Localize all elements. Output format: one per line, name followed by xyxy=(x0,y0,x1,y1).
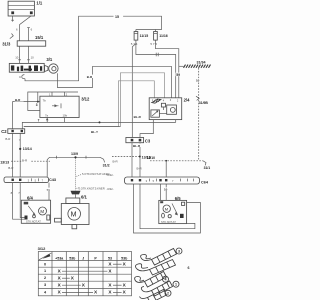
svg-text:3: 3 xyxy=(178,249,180,253)
svg-text:3/12: 3/12 xyxy=(38,246,47,251)
svg-text:BL-R: BL-R xyxy=(133,144,141,148)
svg-text:STK.NOT.AT: STK.NOT.AT xyxy=(26,220,41,224)
svg-text:0: 0 xyxy=(44,262,46,266)
svg-text:1: 1 xyxy=(44,269,46,273)
svg-text:C43: C43 xyxy=(49,178,56,182)
svg-text:BL-Y: BL-Y xyxy=(91,130,98,134)
svg-text:59: 59 xyxy=(176,73,180,77)
svg-text:7b: 7b xyxy=(43,99,47,103)
svg-text:10b: 10b xyxy=(63,114,68,118)
svg-text:STK.NOT.AT: STK.NOT.AT xyxy=(161,220,176,224)
svg-text:10: 10 xyxy=(196,79,200,83)
svg-text:13/9: 13/9 xyxy=(71,152,78,156)
svg-text:53b: 53b xyxy=(69,256,76,260)
svg-text:B-R: B-R xyxy=(137,167,143,171)
svg-text:1/1: 1/1 xyxy=(36,0,42,5)
svg-text:3/1: 3/1 xyxy=(46,57,52,62)
svg-text:7: 7 xyxy=(38,119,40,123)
svg-text:6/1: 6/1 xyxy=(81,195,87,200)
svg-text:C2: C2 xyxy=(1,129,7,134)
svg-text:6/5: 6/5 xyxy=(175,196,181,201)
svg-text:Y: Y xyxy=(19,138,21,142)
svg-text:3: 3 xyxy=(44,283,46,287)
svg-text:B-R: B-R xyxy=(5,137,10,141)
svg-text:31/34: 31/34 xyxy=(197,61,206,65)
svg-text:13/13: 13/13 xyxy=(0,160,9,164)
svg-text:31/9B: 31/9B xyxy=(199,101,209,105)
svg-text:4: 4 xyxy=(165,278,167,282)
svg-text:B-R: B-R xyxy=(22,159,28,163)
svg-text:B-R: B-R xyxy=(8,166,14,170)
svg-text:5 7 5: 5 7 5 xyxy=(150,42,157,46)
svg-text:M: M xyxy=(71,211,77,218)
svg-text:3: 3 xyxy=(36,103,38,107)
svg-text:+53a: +53a xyxy=(55,256,64,260)
svg-text:6: 6 xyxy=(188,266,190,270)
svg-text:10: 10 xyxy=(31,56,35,60)
svg-text:C64: C64 xyxy=(201,180,209,184)
svg-text:M: M xyxy=(165,206,168,211)
svg-text:BL-R: BL-R xyxy=(134,115,142,119)
svg-text:B-R: B-R xyxy=(113,160,119,164)
svg-text:13/14: 13/14 xyxy=(23,147,32,151)
svg-text:11/15: 11/15 xyxy=(140,34,149,38)
svg-text:10: 10 xyxy=(15,56,19,60)
svg-text:3/12: 3/12 xyxy=(81,97,90,102)
svg-text:0.OTK.KNOT.5.KNER: 0.OTK.KNOT.5.KNER xyxy=(79,186,105,190)
svg-text:C3: C3 xyxy=(145,138,151,143)
svg-text:31/3: 31/3 xyxy=(2,42,11,47)
svg-text:-6/32-: -6/32- xyxy=(107,187,114,191)
svg-text:31/1: 31/1 xyxy=(204,166,211,170)
svg-text:M: M xyxy=(40,209,44,214)
svg-text:53b: 53b xyxy=(121,256,128,260)
svg-text:59: 59 xyxy=(47,188,51,192)
svg-text:-6/32-: -6/32- xyxy=(107,173,114,177)
svg-text:15: 15 xyxy=(115,15,119,19)
svg-text:7a: 7a xyxy=(45,114,49,118)
svg-text:53: 53 xyxy=(108,256,112,260)
svg-text:10: 10 xyxy=(164,188,168,192)
svg-text:15/1: 15/1 xyxy=(35,35,44,40)
svg-text:B-R: B-R xyxy=(87,75,93,79)
svg-text:J: J xyxy=(82,256,84,260)
svg-text:B-R: B-R xyxy=(15,98,21,102)
svg-text:6/4: 6/4 xyxy=(27,196,33,201)
svg-text:2: 2 xyxy=(44,276,46,280)
svg-text:1: 1 xyxy=(175,283,177,287)
svg-text:31/2: 31/2 xyxy=(103,164,110,168)
svg-text:11/16: 11/16 xyxy=(159,34,168,38)
svg-text:2: 2 xyxy=(167,292,169,296)
svg-text:2/4: 2/4 xyxy=(184,98,190,103)
svg-text:5.OTK.KNOT.AT.AKER: 5.OTK.KNOT.AT.AKER xyxy=(82,172,109,176)
svg-text:13/10: 13/10 xyxy=(147,156,156,160)
